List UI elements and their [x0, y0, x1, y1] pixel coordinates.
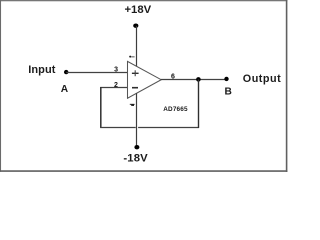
node A terminal dot — [64, 70, 68, 74]
svg-text:3: 3 — [114, 67, 118, 74]
op-amp minus input symbol — [132, 87, 138, 89]
node V+ terminal dot — [133, 24, 138, 28]
wire feedback right vertical — [198, 79, 200, 128]
border frame bottom — [0, 170, 287, 172]
op-amp plus input symbol — [132, 72, 139, 74]
node feedback junction dot — [196, 77, 201, 82]
svg-text:-18V: -18V — [123, 153, 148, 165]
svg-text:Input: Input — [28, 64, 56, 76]
border frame top — [0, 0, 287, 2]
node V- terminal dot — [134, 145, 139, 149]
svg-text:+18V: +18V — [124, 4, 151, 16]
wire feedback bottom right segment — [138, 127, 199, 129]
svg-text:A: A — [61, 84, 69, 95]
wire V+ supply vertical — [136, 26, 138, 67]
border frame left — [0, 0, 2, 172]
pin 7 label — [129, 56, 131, 58]
wire feedback bottom left segment — [100, 127, 136, 129]
pin 4 label — [130, 103, 135, 105]
svg-text:AD7665: AD7665 — [163, 106, 188, 113]
svg-text:B: B — [225, 86, 232, 97]
svg-text:Output: Output — [243, 73, 281, 85]
wire input to pin 3 — [66, 72, 127, 74]
wire output — [161, 79, 227, 81]
wire pin 2 stub — [100, 87, 127, 89]
svg-text:2: 2 — [114, 82, 118, 89]
wire V- supply vertical — [136, 93, 138, 147]
border frame right — [286, 0, 288, 172]
wire feedback left vertical — [100, 87, 102, 128]
node B terminal dot — [224, 77, 228, 81]
op-amp U1 triangle — [128, 61, 162, 98]
